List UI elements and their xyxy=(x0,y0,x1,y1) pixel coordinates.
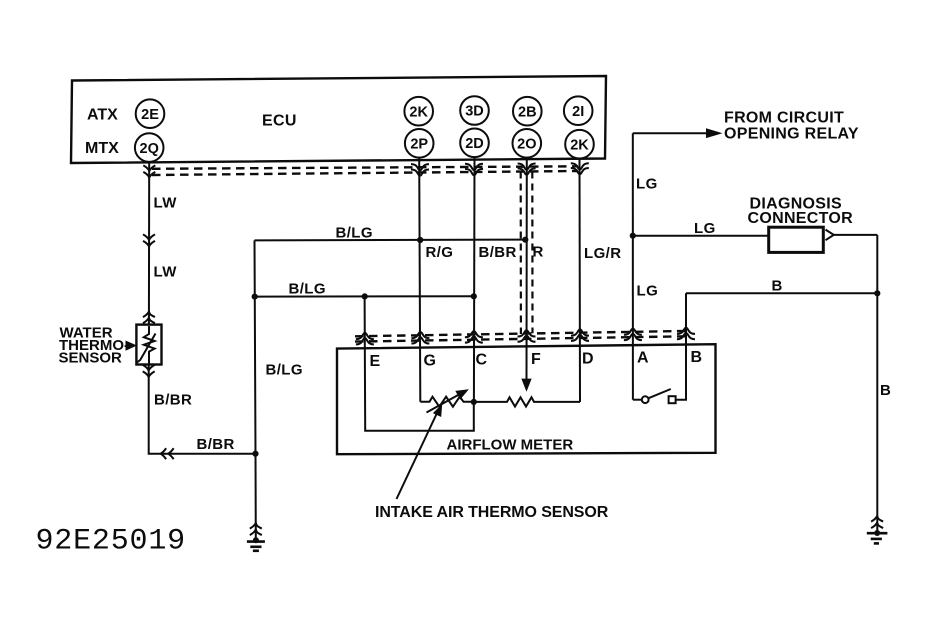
shield vertical dashed, right of R xyxy=(531,172,533,334)
wire B/BR from 2D to airflow C xyxy=(473,157,476,402)
twisted-pair marker above water sensor xyxy=(143,312,155,324)
water thermo sensor thermistor element xyxy=(144,326,155,364)
junction dot potentiometer xyxy=(471,399,477,405)
svg-text:2B: 2B xyxy=(518,104,537,120)
ground dot left xyxy=(253,537,259,543)
svg-text:3D: 3D xyxy=(465,104,484,120)
wire B/BR horizontal from water sensor xyxy=(149,365,256,454)
arrowhead of R wire (pot wiper F) xyxy=(523,380,530,389)
ECU pin 2I xyxy=(564,96,593,125)
wire B horizontal xyxy=(686,292,877,294)
wire B/LG upper horizontal xyxy=(255,239,527,242)
svg-text:ECU: ECU xyxy=(262,113,297,130)
svg-text:2P: 2P xyxy=(410,136,428,152)
ECU pin 2K bottom xyxy=(565,130,594,159)
svg-text:2E: 2E xyxy=(141,107,159,123)
open arrow at diagnosis connector output xyxy=(826,230,834,241)
wire B/LG lower horizontal xyxy=(255,295,474,297)
svg-text:2D: 2D xyxy=(465,136,484,152)
bottom shield hop at E wire xyxy=(356,333,374,345)
svg-text:LG: LG xyxy=(694,220,716,237)
svg-text:LW: LW xyxy=(154,195,178,212)
svg-text:B/LG: B/LG xyxy=(289,281,326,298)
ECU pin 2P xyxy=(405,129,434,158)
svg-text:D: D xyxy=(582,350,594,367)
svg-text:R/G: R/G xyxy=(426,244,454,261)
wire B/LG left riser xyxy=(255,240,256,540)
switch contact arm A-B xyxy=(633,399,642,401)
svg-text:SENSOR: SENSOR xyxy=(59,350,123,367)
shield dashed bundle (top), lower line xyxy=(152,171,578,175)
wire R from 2O down (shielded) xyxy=(526,158,528,381)
wire LG/R from 2K to airflow D xyxy=(579,159,582,402)
svg-text:B/BR: B/BR xyxy=(154,392,192,409)
bottom shield hop at C wire xyxy=(465,331,483,343)
svg-text:MTX: MTX xyxy=(85,140,119,157)
svg-text:LG/R: LG/R xyxy=(584,245,621,262)
wire B right side drop xyxy=(676,293,686,399)
svg-text:2Q: 2Q xyxy=(140,141,159,157)
junction dot B/LG at R wire xyxy=(522,237,528,243)
ECU box xyxy=(71,76,606,163)
bottom shield hop at F wire xyxy=(518,330,536,342)
svg-text:2O: 2O xyxy=(517,136,536,152)
svg-text:LG: LG xyxy=(637,283,659,300)
svg-text:B/BR: B/BR xyxy=(197,436,235,453)
ground left xyxy=(250,523,262,535)
leader line from INTAKE AIR THERMO SENSOR text xyxy=(397,411,439,500)
wire LW from 2Q to water sensor xyxy=(148,162,150,325)
svg-text:AIRFLOW METER: AIRFLOW METER xyxy=(447,437,574,454)
twisted marker on B/BR horizontal xyxy=(161,448,174,459)
wire B vertical right xyxy=(876,235,878,533)
svg-text:B: B xyxy=(880,382,891,399)
svg-text:LW: LW xyxy=(154,264,178,281)
twisted-pair marker mid LW xyxy=(143,234,155,246)
svg-text:92E25019: 92E25019 xyxy=(36,525,186,559)
svg-text:2K: 2K xyxy=(570,137,589,153)
ground dot right xyxy=(874,530,880,536)
ECU pin 2Q xyxy=(135,133,164,162)
svg-text:G: G xyxy=(424,352,436,369)
junction dot LG xyxy=(630,233,636,239)
wire E drop to airflow xyxy=(365,297,474,431)
intake air thermo sensor element (thermistor zigzag) xyxy=(420,397,474,407)
bottom shield hop at A wire xyxy=(624,329,642,341)
junction dot lower B/LG right xyxy=(471,293,477,299)
ECU pin 2E xyxy=(136,99,165,128)
svg-text:B/LG: B/LG xyxy=(266,362,303,379)
svg-text:C: C xyxy=(476,352,488,369)
shield hop at B/BR wire xyxy=(465,164,483,175)
svg-text:2K: 2K xyxy=(409,104,428,120)
svg-text:OPENING RELAY: OPENING RELAY xyxy=(724,126,859,143)
shield dashed bundle (bottom), upper line xyxy=(355,331,691,336)
twisted-pair marker on LW wire (bundle start) xyxy=(143,165,155,177)
arrow to FROM CIRCUIT OPENING RELAY xyxy=(633,132,710,134)
ECU pin 2D xyxy=(460,129,489,158)
shield dashed bundle (bottom), lower line xyxy=(355,336,691,341)
potentiometer resistor between C and D xyxy=(474,397,580,406)
svg-text:E: E xyxy=(370,353,381,370)
svg-text:B: B xyxy=(772,278,783,295)
bottom shield hop at G wire xyxy=(411,332,429,344)
junction dot B/BR riser xyxy=(252,451,258,457)
diagnosis connector box xyxy=(769,227,824,252)
svg-text:INTAKE AIR THERMO SENSOR: INTAKE AIR THERMO SENSOR xyxy=(375,504,609,521)
airflow meter box xyxy=(337,344,716,454)
svg-text:FROM CIRCUIT: FROM CIRCUIT xyxy=(724,110,844,127)
shield dashed bundle (top), upper line xyxy=(152,166,578,169)
wire R/G from 2P to airflow G xyxy=(419,158,420,402)
shield hop at LG/R wire xyxy=(571,163,589,174)
svg-text:B: B xyxy=(691,349,703,366)
shield hop at R wire xyxy=(518,164,536,175)
svg-text:R: R xyxy=(533,244,544,261)
junction dot B xyxy=(874,290,880,296)
ECU pin 2O xyxy=(513,129,542,158)
junction dot B/LG x R/G xyxy=(417,237,423,243)
junction dot lower B/LG left xyxy=(252,294,258,300)
svg-text:LG: LG xyxy=(636,176,658,193)
shield vertical dashed, left of R xyxy=(520,172,522,335)
bottom shield hop at D wire xyxy=(571,329,589,341)
ECU pin 2K top xyxy=(404,97,433,126)
ground right xyxy=(871,516,883,528)
ECU pin 2B xyxy=(513,97,542,126)
thermistor diagonal arrow xyxy=(427,394,460,412)
svg-text:F: F xyxy=(531,351,541,368)
pointer from SENSOR text to box xyxy=(127,342,135,349)
ECU pin 3D xyxy=(460,96,489,125)
junction dot E wire xyxy=(362,293,368,299)
svg-text:B/BR: B/BR xyxy=(479,244,517,261)
svg-text:A: A xyxy=(637,350,649,367)
bottom shield hop at B wire xyxy=(677,328,695,340)
wire LG horizontal to diagnosis connector xyxy=(633,235,769,237)
water thermo sensor box xyxy=(136,325,161,365)
svg-text:CONNECTOR: CONNECTOR xyxy=(748,210,854,227)
svg-text:B/LG: B/LG xyxy=(336,225,373,242)
wire LG vertical (from circuit opening relay down to A) xyxy=(632,133,634,400)
shield hop at R/G wire xyxy=(411,164,429,176)
twisted marker below water sensor xyxy=(143,365,155,377)
svg-text:2I: 2I xyxy=(572,104,584,120)
svg-text:ATX: ATX xyxy=(87,107,118,124)
